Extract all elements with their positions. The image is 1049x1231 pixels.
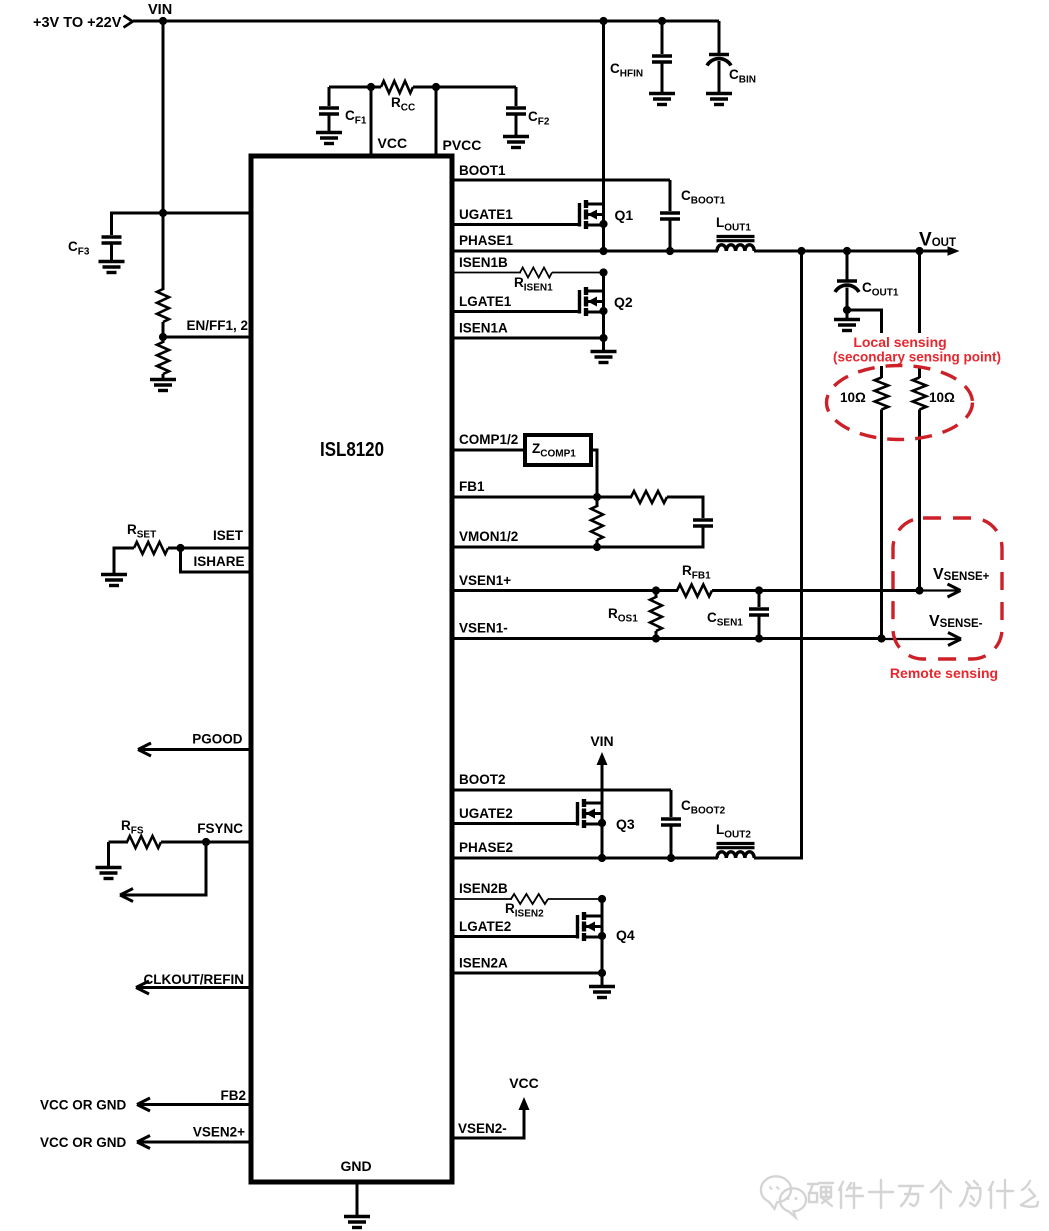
junction FB1 [593, 493, 601, 501]
svg-text:ISL8120: ISL8120 [320, 439, 384, 461]
wire ISEN1B pin [452, 272, 521, 274]
resistor FB1 RC [631, 491, 667, 503]
wire FSYNC feedback [121, 842, 206, 895]
transistor Q4 [578, 912, 603, 941]
svg-text:GND: GND [340, 1158, 371, 1174]
svg-text:ISHARE: ISHARE [193, 554, 244, 569]
label V_OUT [919, 230, 956, 251]
junction ISEN1B [599, 268, 607, 276]
transistor Q1 [580, 200, 604, 229]
label VCC OR GND (VSEN2+) [40, 1135, 127, 1150]
inductor L_OUT1 [717, 237, 755, 252]
junction Q4 source [598, 932, 606, 940]
resistor FB1-VMON vert [591, 497, 603, 548]
junction COUT1 gnd [843, 306, 851, 314]
capacitor C_F2 [506, 87, 526, 136]
svg-text:VSEN1-: VSEN1- [459, 621, 508, 636]
svg-text:PHASE1: PHASE1 [459, 233, 514, 248]
label ISHARE [193, 554, 244, 569]
resistor R_FB1 [677, 585, 712, 597]
svg-text:FB1: FB1 [459, 479, 485, 494]
svg-text:Q3: Q3 [616, 816, 635, 832]
wire VCC pin [370, 87, 373, 158]
wire RSET gnd elbow [114, 548, 134, 574]
junction FSYNC [202, 838, 210, 846]
junction EN/FF [159, 333, 167, 341]
label BOOT1 [459, 163, 506, 178]
svg-text:Remote sensing: Remote sensing [890, 665, 998, 681]
wire Q4 drain-source [601, 899, 604, 974]
junction VSEN1+ ROS1 [652, 586, 660, 594]
wire VIN left drop [162, 21, 165, 215]
inductor L_OUT2 [717, 844, 755, 859]
svg-text:Q1: Q1 [615, 207, 634, 223]
svg-text:VIN: VIN [148, 2, 172, 18]
arrow VSENSE+ [948, 584, 961, 597]
junction Q3 source [598, 819, 606, 827]
resistor R_ISEN1 [520, 268, 552, 278]
label R_CC [391, 95, 415, 114]
svg-text:UGATE2: UGATE2 [459, 806, 513, 821]
arrow VSENSE- [948, 633, 961, 646]
junction PHASE1-Q1 [599, 247, 607, 255]
junction CBOOT2-PHASE2 [667, 854, 675, 862]
svg-text:ISEN1B: ISEN1B [459, 255, 508, 270]
wire FB2 pin [138, 1103, 252, 1106]
arrow FB2 [137, 1098, 150, 1111]
wire VIN to divider [162, 213, 165, 290]
wire VSEN1- pin [452, 637, 883, 640]
wire ISHARE elbow [181, 548, 253, 572]
label VSEN1+ [459, 573, 511, 588]
resistor R_OS1 [650, 591, 662, 640]
label C_BOOT2 [681, 798, 726, 817]
local sensing dashed ellipse [827, 366, 973, 440]
junction VSEN1+ CSEN1 [755, 586, 763, 594]
junction VOUT-COUT1 [843, 247, 851, 255]
label Q1 [615, 207, 634, 223]
label C_F2 [528, 109, 550, 128]
junction Q2 source [599, 307, 607, 315]
junction VCC [367, 83, 375, 91]
label FB2 [220, 1088, 246, 1103]
junction VMON [593, 543, 601, 551]
wire COUT1 to 10ohm [847, 310, 882, 333]
wire VOUT to 10ohm-right [918, 251, 921, 333]
svg-text:(secondary sensing point): (secondary sensing point) [833, 350, 1001, 365]
svg-text:Q4: Q4 [616, 927, 635, 943]
label LGATE1 [459, 294, 512, 309]
junction VSEN1- CSEN1 [755, 634, 763, 642]
wire PHASE1 to VOUT [754, 250, 949, 253]
label FB1 [459, 479, 485, 494]
wire FB1 pin [452, 496, 598, 499]
label Remote sensing [890, 665, 998, 681]
svg-text:VCC: VCC [378, 135, 408, 151]
wire LGATE1 pin [452, 310, 578, 313]
label ISEN2B [459, 881, 508, 896]
label C_F1 [345, 108, 367, 127]
label PGOOD [192, 732, 243, 747]
svg-text:VCC OR GND: VCC OR GND [40, 1135, 127, 1150]
svg-text:UGATE1: UGATE1 [459, 207, 513, 222]
IC U1 ISL8120 [251, 156, 452, 1182]
junction VIN pin [159, 209, 167, 217]
wire VSEN2- pin [452, 1110, 524, 1138]
label Z_COMP1 [532, 441, 576, 460]
label +3V TO +22V [33, 15, 122, 31]
label C_HFIN [610, 61, 643, 80]
svg-text:PGOOD: PGOOD [192, 732, 243, 747]
label VMON1/2 [459, 529, 518, 544]
svg-text:+3V TO +22V: +3V TO +22V [33, 15, 122, 31]
arrow FSYNC feedback [120, 889, 133, 902]
label ISEN1B [459, 255, 508, 270]
svg-text:VCC OR GND: VCC OR GND [40, 1098, 127, 1113]
label LGATE2 [459, 919, 511, 934]
label V_SENSE+ [933, 566, 990, 583]
wire VSENSE- arrow wire [882, 638, 961, 640]
label ISL8120 [320, 439, 384, 461]
svg-text:BOOT1: BOOT1 [459, 163, 506, 178]
label PHASE1 [459, 233, 514, 248]
label VSEN2+ [193, 1125, 245, 1140]
arrow VIN phase2 [597, 752, 608, 765]
resistor divider lower [157, 337, 169, 379]
svg-text:ISEN2B: ISEN2B [459, 881, 508, 896]
capacitor C_F3 [102, 213, 122, 261]
label BOOT2 [459, 772, 506, 787]
remote sensing dashed box [893, 518, 1002, 659]
capacitor C_OUT1 [835, 251, 859, 311]
svg-text:PHASE2: PHASE2 [459, 840, 513, 855]
ground C_HFIN [649, 94, 675, 105]
wire VSENSE+ arrow wire [920, 589, 960, 591]
capacitor C_SEN1 [749, 591, 769, 640]
label C_F3 [68, 239, 90, 258]
label 10ohm right [929, 390, 955, 405]
wire LGATE2 pin [452, 935, 576, 938]
ground C_F2 [503, 137, 529, 148]
ground divider [150, 380, 176, 391]
wire VIN pin [110, 212, 252, 215]
wire RFS gnd elbow [107, 842, 110, 867]
label ISEN2A [459, 956, 508, 971]
junction VOUT-sense [915, 247, 923, 255]
label Q3 [616, 816, 635, 832]
wire ISEN1B to Q [552, 272, 604, 274]
wire VIN to Q3 [601, 764, 604, 803]
wire VMON1/2 pin [452, 546, 705, 549]
capacitor C_F1 [319, 87, 339, 132]
arrow PGOOD [138, 743, 151, 756]
capacitor RC [693, 520, 713, 526]
junction VIN-CHFIN [658, 17, 666, 25]
arrow VCC [519, 1097, 530, 1110]
wire VSEN2+ pin [138, 1141, 252, 1144]
label C_BOOT1 [681, 188, 726, 207]
label C_BIN [729, 67, 756, 86]
label Q2 [614, 294, 633, 310]
svg-text:VCC: VCC [509, 1075, 539, 1091]
capacitor C_HFIN [652, 21, 672, 93]
junction VIN-Q1 [599, 17, 607, 25]
junction ISEN1A [599, 334, 607, 342]
wire 10ohm-left upper [880, 366, 883, 378]
label R_ISEN2 [505, 901, 544, 920]
label CLKOUT/REFIN [144, 972, 245, 987]
junction Q1 source [599, 220, 607, 228]
label Local sensing [853, 334, 946, 350]
wire PGOOD pin [139, 748, 252, 751]
wire GND pin [356, 1182, 359, 1216]
label VIN (top) [148, 2, 172, 18]
svg-text:VSEN2+: VSEN2+ [193, 1125, 245, 1140]
wire BOOT2 pin [452, 789, 671, 792]
wire RC to cap [667, 497, 703, 518]
wire Q2 drain-source [602, 273, 605, 340]
capacitor C_BOOT1 [660, 180, 680, 252]
svg-text:PVCC: PVCC [443, 137, 482, 153]
junction ISEN2A [598, 969, 606, 977]
wire Q3 to PHASE2 [601, 803, 604, 859]
svg-text:LGATE1: LGATE1 [459, 294, 512, 309]
arrow VSEN2+ [137, 1136, 150, 1149]
wire ISEN2B pin [452, 898, 512, 900]
wire ISEN2B to Q [548, 898, 602, 900]
svg-text:ISEN1A: ISEN1A [459, 321, 508, 336]
label C_OUT1 [862, 280, 899, 299]
label VCC (VSEN2-) [509, 1075, 539, 1091]
wire FSYNC pin [161, 841, 252, 844]
svg-text:VMON1/2: VMON1/2 [459, 529, 518, 544]
transistor Q3 [578, 799, 603, 828]
svg-text:10Ω: 10Ω [840, 390, 866, 405]
svg-text:ISET: ISET [213, 528, 244, 543]
label R_OS1 [608, 606, 638, 625]
label ISET [213, 528, 244, 543]
label C_SEN1 [707, 610, 743, 629]
wire ISET pin [181, 547, 253, 550]
wire ISEN1A pin [452, 337, 604, 340]
wire ZCOMP1 to FB1 [591, 450, 597, 497]
arrow VOUT [948, 246, 960, 256]
ground IC GND [344, 1217, 370, 1228]
wire PHASE2 to VOUT riser [754, 251, 802, 858]
svg-text:COMP1/2: COMP1/2 [459, 432, 518, 447]
label secondary sensing point [833, 350, 1001, 365]
junction CBOOT1-PHASE1 [666, 247, 674, 255]
wire ISEN2A pin [452, 972, 602, 975]
label R_FB1 [682, 563, 711, 582]
label EN/FF1, 2 [186, 318, 248, 333]
svg-text:ISEN2A: ISEN2A [459, 956, 508, 971]
resistor divider upper [157, 289, 169, 338]
resistor R_SET [134, 542, 181, 554]
arrow CLKOUT/REFIN [136, 981, 149, 994]
svg-text:FB2: FB2 [220, 1088, 246, 1103]
junction VSEN1+ 10ohm [915, 586, 923, 594]
label VCC pin [378, 135, 408, 151]
wire Q2 source to gnd [602, 338, 605, 351]
label FSYNC [197, 821, 243, 836]
ground R_FS [96, 868, 122, 879]
label L_OUT1 [716, 215, 751, 234]
wire BOOT1 pin [452, 179, 670, 182]
capacitor C_BIN [707, 21, 731, 93]
label VCC OR GND (FB2) [40, 1098, 127, 1113]
svg-text:VSEN2-: VSEN2- [458, 1121, 507, 1136]
label R_FS [121, 818, 144, 837]
ground C_F3 [99, 262, 125, 273]
label PVCC pin [443, 137, 482, 153]
label UGATE2 [459, 806, 513, 821]
wire COMP1/2 pin [452, 449, 525, 452]
label ISEN1A [459, 321, 508, 336]
svg-text:VIN: VIN [590, 733, 613, 749]
watermark logo and text [761, 1176, 1038, 1217]
wire Q1 drain from VIN [602, 21, 605, 204]
label VIN (phase2) [590, 733, 613, 749]
wire CLKOUT/REFIN pin [137, 986, 252, 989]
wire UGATE2 pin [452, 822, 576, 825]
junction PVCC [432, 83, 440, 91]
svg-text:10Ω: 10Ω [929, 390, 955, 405]
wire FB1 to RC [597, 496, 632, 499]
wire Q4 source to gnd [601, 973, 604, 986]
ground C_OUT1 [834, 310, 860, 331]
resistor R_ISEN2 [511, 894, 548, 904]
label R_SET [127, 522, 156, 541]
resistor R_FS [109, 836, 162, 848]
ground R_SET [101, 575, 127, 586]
ground Q4 [589, 987, 615, 998]
svg-text:Q2: Q2 [614, 294, 633, 310]
junction VSEN1- ROS1 [652, 634, 660, 642]
resistor R_CC [381, 81, 413, 93]
resistor 10ohm right [913, 378, 927, 591]
wire 10ohm-right upper [918, 366, 921, 378]
svg-text:CLKOUT/REFIN: CLKOUT/REFIN [144, 972, 245, 987]
label GND pin [340, 1158, 371, 1174]
label VSEN2- [458, 1121, 507, 1136]
label PHASE2 [459, 840, 513, 855]
label VSEN1- [459, 621, 508, 636]
junction PHASE2-Q3 [598, 854, 606, 862]
wire EN/FF1,2 pin [163, 336, 252, 339]
ground C_F1 [316, 133, 342, 144]
label 10ohm left [840, 390, 866, 405]
ground C_BIN [706, 94, 732, 105]
svg-text:VSEN1+: VSEN1+ [459, 573, 511, 588]
label L_OUT2 [716, 822, 751, 841]
svg-text:BOOT2: BOOT2 [459, 772, 506, 787]
wire VSEN1+ pin [452, 589, 678, 592]
wire PHASE1 pin [452, 250, 718, 253]
wire cap to VMON [702, 528, 705, 549]
label Q4 [616, 927, 635, 943]
capacitor C_BOOT2 [661, 790, 681, 859]
wire RFB1 to sense [712, 589, 921, 592]
wire VCC rail [329, 86, 516, 89]
node VIN input rail [133, 20, 719, 23]
transistor Q2 [580, 287, 604, 316]
svg-text:EN/FF1, 2: EN/FF1, 2 [186, 318, 248, 333]
wire PVCC pin [435, 87, 438, 158]
junction VOUT-phase2 [797, 247, 805, 255]
junction ISET [176, 544, 184, 552]
resistor 10ohm left [875, 378, 889, 640]
junction VSEN1- 10ohm [877, 634, 885, 642]
label COMP1/2 [459, 432, 518, 447]
input chevron [124, 16, 133, 28]
junction ISEN2B [598, 895, 606, 903]
svg-text:FSYNC: FSYNC [197, 821, 243, 836]
ground Q2 [591, 352, 617, 363]
wire Q1 source to PHASE1 [602, 204, 605, 252]
label UGATE1 [459, 207, 513, 222]
label R_ISEN1 [514, 275, 553, 294]
svg-text:Local sensing: Local sensing [853, 334, 946, 350]
junction VIN-left [159, 17, 167, 25]
block Z_COMP1 [525, 435, 591, 465]
wire UGATE1 pin [452, 223, 578, 226]
svg-text:LGATE2: LGATE2 [459, 919, 511, 934]
wire PHASE2 pin [452, 857, 718, 860]
label V_SENSE- [929, 613, 983, 630]
